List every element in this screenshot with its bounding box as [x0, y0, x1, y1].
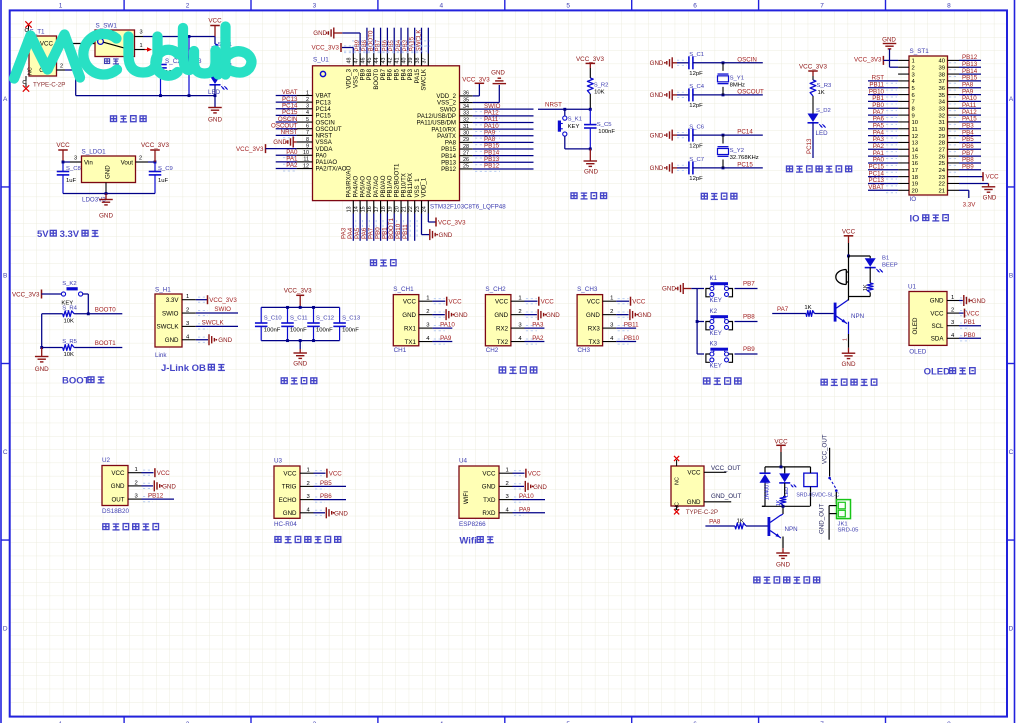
svg-text:NPN: NPN: [785, 526, 798, 533]
svg-text:ESP8266: ESP8266: [459, 521, 486, 528]
svg-text:VBAT: VBAT: [868, 184, 884, 191]
svg-text:42: 42: [388, 58, 394, 64]
svg-text:GND: GND: [584, 169, 598, 176]
svg-text:S_Y2: S_Y2: [730, 148, 744, 154]
svg-text:PA2/TX/AO: PA2/TX/AO: [316, 166, 347, 173]
svg-text:GND: GND: [842, 361, 856, 368]
svg-text:A: A: [3, 96, 8, 103]
svg-text:BOOT0: BOOT0: [95, 307, 117, 314]
svg-text:GND: GND: [546, 312, 560, 319]
svg-text:RX2: RX2: [496, 325, 509, 332]
svg-text:VCC: VCC: [111, 470, 125, 477]
svg-text:100nF: 100nF: [342, 328, 359, 334]
svg-text:3.3V: 3.3V: [963, 202, 977, 209]
svg-text:K3: K3: [710, 341, 718, 348]
svg-text:D: D: [3, 626, 8, 633]
svg-text:GND: GND: [439, 232, 453, 239]
svg-text:VCC: VCC: [482, 470, 496, 477]
svg-text:PC13: PC13: [806, 138, 813, 154]
svg-text:PA9: PA9: [519, 506, 531, 513]
svg-text:VCC: VCC: [56, 142, 70, 149]
svg-text:GND: GND: [111, 483, 125, 490]
svg-text:33: 33: [938, 106, 945, 112]
svg-text:GND: GND: [218, 337, 232, 344]
svg-text:8: 8: [947, 3, 951, 10]
svg-text:4: 4: [306, 110, 309, 116]
svg-text:10K: 10K: [64, 319, 75, 325]
svg-text:8: 8: [306, 137, 309, 143]
svg-text:B: B: [1009, 273, 1013, 280]
svg-text:9: 9: [912, 113, 915, 119]
svg-text:2: 2: [186, 3, 190, 10]
svg-text:40: 40: [401, 58, 407, 64]
svg-text:TYPE-C-2P: TYPE-C-2P: [686, 509, 718, 516]
svg-text:1K: 1K: [804, 305, 811, 311]
svg-text:PA7: PA7: [777, 306, 789, 313]
svg-text:24: 24: [938, 168, 945, 174]
svg-text:PC15: PC15: [737, 161, 753, 168]
svg-text:47: 47: [354, 58, 360, 64]
svg-text:VCC: VCC: [449, 299, 463, 306]
svg-text:S_CH2: S_CH2: [485, 286, 506, 293]
svg-text:J-Link OB: J-Link OB: [161, 363, 206, 374]
svg-text:GND: GND: [491, 70, 505, 77]
svg-text:10: 10: [912, 120, 919, 126]
svg-text:RX1: RX1: [404, 325, 417, 332]
svg-text:GND: GND: [650, 60, 664, 67]
svg-text:VCC_3V3: VCC_3V3: [141, 142, 169, 149]
svg-text:KEY: KEY: [710, 363, 722, 370]
svg-text:VCC: VCC: [587, 298, 601, 305]
svg-text:41: 41: [394, 58, 400, 64]
svg-text:3.3V: 3.3V: [166, 297, 180, 304]
svg-text:33: 33: [463, 111, 469, 117]
svg-text:PA2: PA2: [286, 162, 298, 169]
svg-text:19: 19: [388, 206, 394, 212]
svg-text:SWCLK: SWCLK: [415, 29, 422, 52]
svg-text:OSCIN: OSCIN: [737, 56, 757, 63]
svg-text:VCC: VCC: [930, 310, 944, 317]
svg-text:5V: 5V: [37, 229, 49, 240]
svg-text:1: 1: [140, 43, 143, 49]
svg-text:K1: K1: [710, 275, 718, 282]
svg-text:TX3: TX3: [588, 339, 600, 346]
svg-text:28: 28: [938, 141, 945, 147]
svg-text:GND_OUT: GND_OUT: [819, 504, 826, 534]
svg-text:GND: GND: [208, 117, 222, 124]
svg-text:VCC: VCC: [157, 470, 171, 477]
svg-text:1: 1: [135, 467, 138, 473]
svg-text:S_C10: S_C10: [264, 316, 283, 322]
svg-text:VCC: VCC: [687, 470, 701, 477]
svg-text:35: 35: [463, 97, 469, 103]
svg-text:KEY: KEY: [568, 124, 580, 130]
svg-text:2: 2: [506, 481, 509, 487]
svg-text:KEY: KEY: [710, 297, 722, 304]
svg-text:GND: GND: [882, 37, 896, 44]
svg-text:OUT: OUT: [111, 496, 124, 503]
svg-text:S_LDO1: S_LDO1: [82, 149, 107, 156]
svg-text:3: 3: [313, 3, 317, 10]
svg-text:SRD-05VDC-SL-C: SRD-05VDC-SL-C: [796, 493, 839, 499]
svg-text:S_C5: S_C5: [597, 122, 612, 128]
svg-text:6: 6: [306, 124, 309, 130]
svg-text:38: 38: [938, 72, 945, 78]
svg-text:3: 3: [306, 104, 309, 110]
svg-text:12pF: 12pF: [689, 176, 703, 182]
svg-text:PA3: PA3: [532, 322, 544, 329]
svg-text:2: 2: [135, 480, 138, 486]
svg-text:BOOT: BOOT: [62, 376, 90, 387]
svg-text:VCC: VCC: [966, 311, 980, 318]
svg-text:GND: GND: [533, 484, 547, 491]
svg-text:10K: 10K: [594, 90, 605, 96]
svg-text:ECHO: ECHO: [279, 497, 297, 504]
svg-text:1K: 1K: [818, 90, 825, 96]
svg-text:PB9: PB9: [743, 346, 755, 353]
svg-text:10: 10: [303, 150, 309, 156]
svg-text:GND: GND: [482, 484, 496, 491]
svg-text:1: 1: [186, 294, 189, 300]
svg-text:6: 6: [693, 3, 697, 10]
svg-text:2: 2: [139, 156, 142, 162]
svg-text:TRIG: TRIG: [282, 484, 297, 491]
svg-text:2: 2: [186, 308, 189, 314]
svg-text:39: 39: [938, 65, 945, 71]
svg-text:RXD: RXD: [482, 510, 496, 517]
svg-text:PB1: PB1: [964, 319, 976, 326]
svg-text:PC14: PC14: [737, 129, 753, 136]
svg-text:25: 25: [463, 164, 469, 170]
svg-text:S_H1: S_H1: [155, 286, 171, 293]
svg-text:VCC: VCC: [329, 471, 343, 478]
svg-text:S_K1: S_K1: [568, 117, 582, 123]
svg-text:BOOT1: BOOT1: [95, 340, 117, 347]
svg-text:34: 34: [938, 100, 945, 106]
svg-text:SWIO: SWIO: [214, 306, 231, 313]
svg-text:15: 15: [360, 206, 366, 212]
svg-text:10K: 10K: [64, 352, 75, 358]
svg-text:44: 44: [374, 58, 380, 64]
svg-text:36: 36: [463, 91, 469, 97]
svg-text:SDA: SDA: [931, 336, 945, 343]
svg-text:2: 2: [912, 65, 915, 71]
svg-text:15: 15: [912, 154, 919, 160]
svg-text:43: 43: [381, 58, 387, 64]
svg-text:VCC_OUT: VCC_OUT: [822, 434, 829, 464]
svg-text:TX1: TX1: [405, 339, 417, 346]
svg-text:PB12: PB12: [441, 166, 457, 173]
svg-text:100nF: 100nF: [316, 328, 333, 334]
svg-text:7: 7: [912, 100, 915, 106]
svg-text:C: C: [3, 449, 8, 456]
svg-text:12pF: 12pF: [689, 143, 703, 149]
svg-text:GND: GND: [662, 285, 676, 292]
svg-text:S_C8: S_C8: [66, 166, 81, 172]
svg-text:11: 11: [303, 157, 309, 163]
svg-text:OLED: OLED: [924, 367, 951, 378]
svg-text:SRD-05: SRD-05: [838, 528, 860, 534]
svg-text:A: A: [1009, 96, 1014, 103]
svg-text:S_R4: S_R4: [62, 306, 77, 312]
svg-text:23: 23: [938, 175, 945, 181]
svg-text:VCC_3V3: VCC_3V3: [854, 57, 882, 64]
svg-text:7: 7: [820, 3, 824, 10]
svg-text:U1: U1: [908, 284, 917, 291]
svg-text:100nF: 100nF: [264, 328, 281, 334]
svg-text:IO: IO: [910, 196, 917, 203]
svg-text:S_R5: S_R5: [62, 339, 77, 345]
svg-text:BEEP: BEEP: [882, 263, 898, 269]
svg-text:17: 17: [912, 168, 919, 174]
svg-text:VCC: VCC: [774, 438, 788, 445]
svg-text:CH3: CH3: [577, 347, 590, 354]
svg-text:27: 27: [938, 147, 945, 153]
svg-text:B: B: [3, 273, 7, 280]
svg-text:GND: GND: [687, 499, 701, 506]
svg-text:29: 29: [938, 134, 945, 140]
svg-text:PB10: PB10: [624, 335, 640, 342]
svg-text:1: 1: [307, 468, 310, 474]
svg-text:3: 3: [140, 30, 143, 36]
svg-text:27: 27: [463, 150, 469, 156]
svg-text:VDD_1: VDD_1: [421, 177, 428, 197]
svg-text:GND: GND: [402, 312, 416, 319]
svg-text:1: 1: [59, 3, 63, 10]
svg-text:VCC_3V3: VCC_3V3: [311, 45, 339, 52]
svg-text:S_ST1: S_ST1: [910, 48, 930, 55]
svg-text:14: 14: [912, 147, 919, 153]
svg-text:Vout: Vout: [121, 160, 134, 167]
svg-text:NC: NC: [675, 502, 681, 510]
svg-text:PA10: PA10: [519, 493, 534, 500]
svg-text:HC-R04: HC-R04: [274, 521, 297, 528]
svg-text:2: 2: [951, 308, 954, 314]
svg-text:S_K2: S_K2: [62, 281, 76, 287]
svg-text:GND: GND: [313, 30, 327, 37]
svg-text:VCC_3V3: VCC_3V3: [284, 288, 312, 295]
svg-text:4: 4: [439, 3, 443, 10]
svg-text:12pF: 12pF: [689, 71, 703, 77]
svg-text:STM32F103C8T6_LQFP48: STM32F103C8T6_LQFP48: [430, 204, 506, 211]
svg-text:TX2: TX2: [497, 339, 509, 346]
svg-text:38: 38: [415, 58, 421, 64]
svg-text:30: 30: [938, 127, 945, 133]
svg-text:VCC: VCC: [528, 471, 542, 478]
svg-text:S_C13: S_C13: [342, 316, 361, 322]
svg-text:GND: GND: [983, 195, 997, 202]
svg-text:20: 20: [912, 189, 919, 195]
svg-text:21: 21: [401, 206, 407, 212]
svg-text:VCC_3V3: VCC_3V3: [209, 297, 237, 304]
svg-text:VCC_3V3: VCC_3V3: [12, 292, 40, 299]
svg-text:GND: GND: [650, 92, 664, 99]
svg-text:39: 39: [408, 58, 414, 64]
svg-text:5: 5: [306, 117, 309, 123]
svg-text:22: 22: [938, 182, 945, 188]
svg-text:VCC_3V3: VCC_3V3: [799, 64, 827, 71]
svg-text:OLED: OLED: [912, 317, 919, 334]
svg-text:2: 2: [306, 97, 309, 103]
svg-text:35: 35: [938, 93, 945, 99]
svg-text:30: 30: [463, 131, 469, 137]
svg-text:25: 25: [938, 161, 945, 167]
svg-text:GND: GND: [99, 213, 113, 220]
svg-text:PA2: PA2: [532, 335, 544, 342]
svg-text:S_CH1: S_CH1: [393, 286, 414, 293]
svg-text:22: 22: [408, 206, 414, 212]
svg-text:29: 29: [463, 137, 469, 143]
svg-text:PB5: PB5: [320, 480, 332, 487]
svg-text:S_U1: S_U1: [313, 57, 329, 64]
svg-text:1: 1: [426, 296, 429, 302]
svg-text:S_C11: S_C11: [290, 316, 308, 322]
svg-text:NC: NC: [675, 477, 681, 485]
svg-text:Wifi: Wifi: [459, 535, 476, 546]
svg-text:PB8: PB8: [743, 314, 755, 321]
svg-text:C: C: [1009, 449, 1014, 456]
svg-text:GND: GND: [334, 510, 348, 517]
svg-text:1: 1: [610, 296, 613, 302]
svg-text:13: 13: [912, 141, 919, 147]
svg-text:CH1: CH1: [394, 347, 407, 354]
svg-text:32: 32: [463, 117, 469, 123]
svg-text:1uF: 1uF: [66, 178, 77, 184]
svg-text:GND_OUT: GND_OUT: [711, 493, 741, 500]
svg-text:PB11: PB11: [402, 224, 409, 239]
svg-text:PA9: PA9: [440, 335, 452, 342]
svg-text:GND: GND: [776, 562, 790, 569]
svg-text:U4: U4: [459, 458, 468, 465]
svg-text:VCC: VCC: [632, 299, 646, 306]
svg-text:GND: GND: [930, 298, 944, 305]
svg-text:1N4007: 1N4007: [765, 482, 771, 500]
svg-text:16: 16: [367, 206, 373, 212]
svg-text:S_R3: S_R3: [817, 83, 832, 89]
svg-text:D: D: [1009, 626, 1014, 633]
svg-text:PB7: PB7: [743, 281, 755, 288]
svg-text:1: 1: [306, 90, 309, 96]
svg-text:1K: 1K: [863, 284, 869, 291]
svg-text:LED: LED: [816, 130, 829, 137]
svg-text:23: 23: [415, 206, 421, 212]
svg-text:21: 21: [938, 189, 945, 195]
svg-text:S_D2: S_D2: [816, 108, 831, 114]
svg-text:NC: NC: [28, 67, 34, 75]
svg-text:48: 48: [347, 58, 353, 64]
svg-text:PB9: PB9: [962, 163, 974, 170]
svg-text:3: 3: [74, 156, 77, 162]
svg-text:U2: U2: [102, 457, 111, 464]
svg-text:Link: Link: [155, 352, 167, 359]
svg-text:26: 26: [463, 157, 469, 163]
svg-text:34: 34: [463, 104, 469, 110]
svg-text:PB0: PB0: [964, 332, 976, 339]
svg-text:VCC: VCC: [208, 18, 222, 25]
svg-text:NRST: NRST: [545, 102, 562, 109]
svg-text:VCC: VCC: [541, 299, 555, 306]
svg-text:S_R2: S_R2: [594, 83, 609, 89]
svg-text:VCC_3V3: VCC_3V3: [236, 146, 264, 153]
svg-text:TXD: TXD: [483, 497, 496, 504]
svg-text:20: 20: [394, 206, 400, 212]
svg-text:18: 18: [912, 175, 919, 181]
svg-text:GND: GND: [162, 483, 176, 490]
svg-text:WIFI: WIFI: [463, 491, 470, 504]
svg-text:PA10: PA10: [440, 322, 455, 329]
svg-text:GND: GND: [165, 337, 179, 344]
svg-text:PB6: PB6: [320, 493, 332, 500]
svg-text:RX3: RX3: [588, 325, 601, 332]
svg-text:26: 26: [938, 154, 945, 160]
svg-text:S_C1: S_C1: [689, 52, 704, 58]
svg-text:PB11: PB11: [624, 322, 639, 329]
svg-text:1: 1: [912, 59, 915, 65]
svg-text:S_Y1: S_Y1: [730, 75, 744, 81]
svg-text:16: 16: [912, 161, 919, 167]
svg-text:OLED: OLED: [909, 348, 927, 355]
svg-text:2: 2: [518, 309, 521, 315]
svg-text:100nF: 100nF: [290, 328, 307, 334]
svg-text:GND: GND: [105, 165, 112, 179]
svg-text:GND: GND: [293, 361, 307, 368]
svg-text:S_CH3: S_CH3: [577, 286, 598, 293]
svg-text:32: 32: [938, 113, 945, 119]
svg-text:36: 36: [938, 86, 945, 92]
svg-text:VCC_OUT: VCC_OUT: [711, 465, 741, 472]
svg-text:VCC_3V3: VCC_3V3: [462, 77, 490, 84]
svg-text:VCC: VCC: [403, 298, 417, 305]
svg-text:1: 1: [506, 468, 509, 474]
svg-text:46: 46: [360, 58, 366, 64]
svg-text:1: 1: [843, 338, 849, 341]
svg-text:40: 40: [938, 59, 945, 65]
svg-text:SWCLK: SWCLK: [156, 324, 179, 331]
svg-text:Vin: Vin: [84, 160, 93, 167]
svg-text:U3: U3: [274, 458, 283, 465]
svg-text:B1: B1: [882, 256, 889, 262]
svg-text:9: 9: [306, 143, 309, 149]
svg-text:31: 31: [938, 120, 945, 126]
svg-text:GND: GND: [650, 165, 664, 172]
svg-text:12: 12: [303, 163, 309, 169]
svg-text:KEY: KEY: [710, 330, 722, 337]
svg-text:S_C9: S_C9: [158, 166, 173, 172]
svg-text:19: 19: [912, 182, 919, 188]
svg-text:14: 14: [354, 206, 360, 212]
svg-text:37: 37: [938, 79, 945, 85]
svg-text:VCC_3V3: VCC_3V3: [576, 56, 604, 63]
svg-text:18: 18: [381, 206, 387, 212]
svg-text:PB12: PB12: [148, 493, 164, 500]
svg-text:S_C7: S_C7: [689, 157, 704, 163]
svg-text:12: 12: [912, 134, 919, 140]
svg-text:7: 7: [306, 130, 309, 136]
svg-text:31: 31: [463, 124, 469, 130]
svg-text:VCC: VCC: [40, 41, 54, 48]
svg-text:GND: GND: [283, 510, 297, 517]
svg-text:SWIO: SWIO: [162, 310, 179, 317]
svg-text:PB12: PB12: [484, 163, 500, 170]
svg-text:NPN: NPN: [851, 313, 864, 320]
svg-text:IO: IO: [910, 214, 920, 225]
svg-text:S_C12: S_C12: [316, 316, 334, 322]
svg-text:S_C4: S_C4: [689, 84, 704, 90]
svg-text:GND: GND: [650, 132, 664, 139]
svg-text:SWCLK: SWCLK: [202, 319, 225, 326]
svg-text:17: 17: [374, 206, 380, 212]
svg-text:VCC: VCC: [283, 470, 297, 477]
